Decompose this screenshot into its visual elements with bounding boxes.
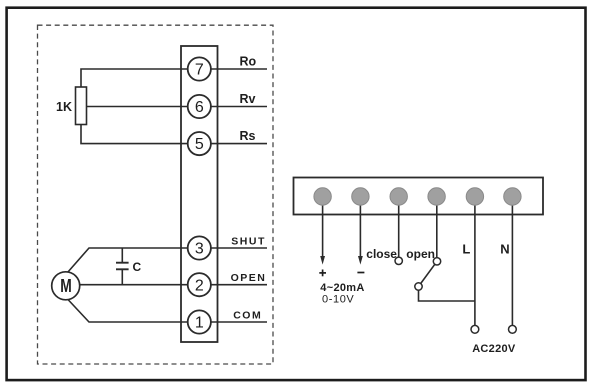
svg-text:Rv: Rv (240, 92, 256, 106)
svg-text:L: L (462, 242, 470, 257)
svg-text:C: C (133, 260, 142, 274)
svg-text:OPEN: OPEN (231, 272, 267, 284)
svg-text:close: close (366, 247, 397, 261)
svg-text:1: 1 (195, 315, 204, 332)
svg-text:1K: 1K (56, 100, 72, 114)
svg-text:3: 3 (195, 241, 204, 258)
svg-text:COM: COM (233, 310, 262, 322)
svg-text:SHUT: SHUT (231, 236, 266, 248)
svg-text:open: open (406, 247, 435, 261)
svg-text:Rs: Rs (240, 129, 256, 143)
svg-text:M: M (60, 276, 72, 296)
svg-text:6: 6 (195, 99, 204, 116)
svg-text:AC220V: AC220V (472, 343, 516, 355)
svg-text:7: 7 (195, 62, 204, 79)
svg-text:N: N (500, 242, 509, 257)
svg-text:Ro: Ro (240, 55, 257, 69)
svg-text:0-10V: 0-10V (322, 294, 354, 306)
svg-text:2: 2 (195, 277, 204, 294)
svg-text:4~20mA: 4~20mA (320, 282, 364, 294)
svg-text:5: 5 (195, 136, 204, 153)
